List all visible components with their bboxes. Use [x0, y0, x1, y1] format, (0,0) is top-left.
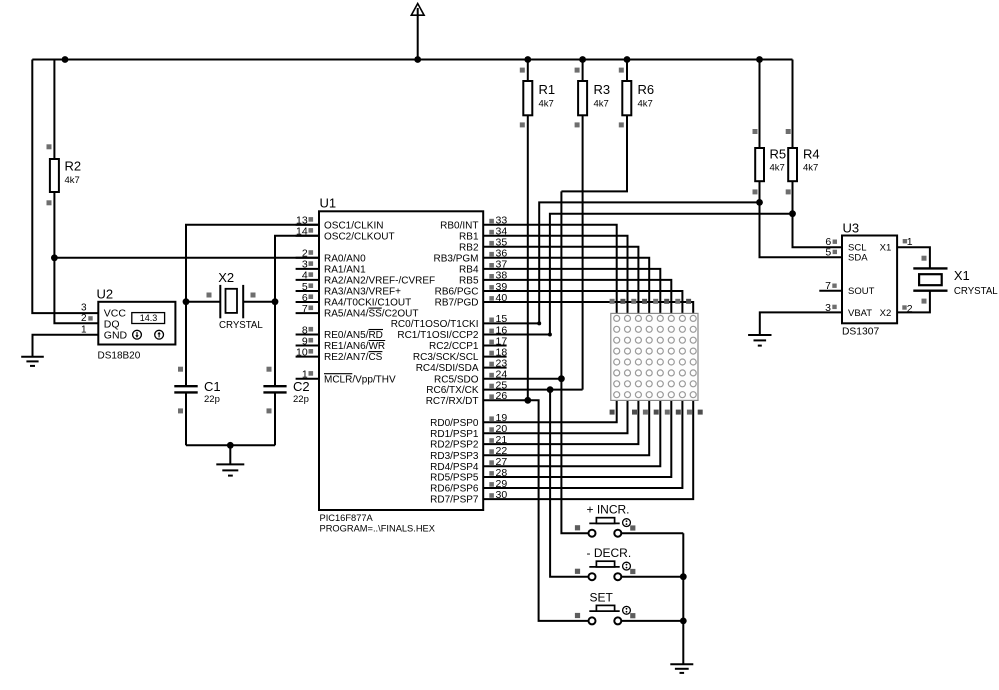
label U3 SCL	[848, 243, 866, 254]
svg-text:RB7/PGD: RB7/PGD	[435, 298, 479, 309]
svg-text:RD1/PSP1: RD1/PSP1	[430, 429, 479, 440]
svg-text:RD3/PSP3: RD3/PSP3	[430, 451, 479, 462]
wire SET to common	[621, 620, 683, 622]
label C1	[204, 379, 221, 394]
label U1 pin name RA4/T0CKI/C1OUT pin 6	[324, 298, 411, 309]
svg-text:RA4/T0CKI/C1OUT: RA4/T0CKI/C1OUT	[324, 298, 411, 309]
U2 button decrease temp	[133, 330, 142, 339]
label U2 VCC	[104, 308, 127, 320]
overbar WR pin 9	[369, 340, 386, 342]
svg-text:RA0/AN0: RA0/AN0	[324, 253, 366, 264]
pad DECR right	[630, 569, 635, 574]
label R3	[594, 82, 611, 97]
resistor R4 body	[788, 148, 797, 181]
svg-text:U2: U2	[97, 287, 114, 302]
svg-text:4k7: 4k7	[770, 163, 785, 174]
label U1 pin number 36	[496, 248, 508, 260]
wire C2 bottom	[274, 392, 276, 445]
label U1 pin number 2	[302, 248, 308, 260]
pad U1 pin 10	[309, 349, 314, 354]
node rail junction R3	[579, 56, 586, 63]
label R5	[770, 147, 787, 162]
label U1 pin name pin 35	[459, 242, 479, 253]
pad R4 pin2	[786, 189, 791, 194]
U1 pin 18 stub	[483, 356, 506, 358]
label R2	[65, 159, 82, 174]
resistor R6 body	[622, 81, 631, 115]
label U1 pin name MCLR/Vpp/THV pin 1	[324, 374, 396, 385]
label U1 pin name pin 30	[430, 495, 479, 506]
wire RB7 pin 40 to matrix column 8	[483, 302, 693, 313]
label U1 pin name RA3/AN3/VREF+ pin 5	[324, 287, 401, 298]
U1 pin 6 stub	[296, 301, 319, 303]
LED matrix dots 8x8	[614, 315, 697, 397]
wire R1 top	[527, 60, 529, 82]
overbar SS pin 7	[369, 307, 382, 309]
wire RD2 pin 21 to matrix column 3 bottom	[483, 400, 638, 444]
label U1 pin name pin 15	[391, 319, 479, 330]
pad C2 pin2	[267, 408, 272, 413]
ground symbol below U2	[21, 357, 44, 366]
node R5/SDA junction	[756, 199, 763, 206]
label R5 value 4k7	[770, 163, 785, 174]
svg-text:5: 5	[825, 246, 831, 258]
node RC7/R1/SET junction	[524, 397, 531, 404]
wire RB2 pin 35 to matrix column 3	[483, 247, 638, 314]
svg-text:RC1/T1OSI/CCP2: RC1/T1OSI/CCP2	[397, 330, 479, 341]
label U1 pin number 5	[302, 281, 308, 293]
wire U3 X2 pin to crystal	[897, 291, 930, 313]
label U1 pin name pin 34	[459, 231, 479, 242]
label U2 DQ	[104, 319, 120, 331]
label U1 pin name pin 17	[429, 341, 479, 352]
pad U1 pin 8	[309, 327, 314, 332]
pad INCR left	[575, 525, 580, 530]
label U1 pin number 14	[296, 226, 308, 238]
ground symbol below buttons	[670, 664, 693, 673]
wire RD5 pin 28 to matrix column 6 bottom	[483, 400, 671, 477]
pad DECR left	[575, 569, 580, 574]
U1 pin 2 stub	[296, 257, 319, 259]
capacitor C2 plates	[263, 386, 286, 392]
svg-text:14: 14	[296, 226, 308, 238]
wire U3.VBAT to ground	[760, 312, 842, 334]
wire RD0 pin 19 to matrix column 1 bottom	[483, 400, 617, 422]
label U1 program	[320, 524, 435, 534]
pad U1 pin 14	[309, 228, 314, 233]
label button + INCR.	[587, 503, 630, 517]
svg-text:GND: GND	[104, 330, 128, 342]
svg-text:RA2/AN2/VREF-/CVREF: RA2/AN2/VREF-/CVREF	[324, 276, 435, 287]
label U2 pin number 1	[81, 325, 87, 336]
wire C1-C2 ground bus	[186, 444, 275, 446]
svg-text:RB3/PGM: RB3/PGM	[433, 253, 478, 264]
wire R3 bottom to RC6	[582, 115, 584, 389]
label X2	[218, 270, 234, 285]
label U3 pin number 5	[825, 246, 831, 258]
svg-text:3: 3	[81, 303, 87, 314]
pad U1 pin 5	[309, 283, 314, 288]
U1 pin 14 stub	[296, 235, 319, 237]
svg-text:R3: R3	[594, 82, 611, 97]
label U1 pin name pin 40	[435, 298, 479, 309]
svg-text:RE2/AN7/CS: RE2/AN7/CS	[324, 352, 383, 363]
svg-text:RD5/PSP5: RD5/PSP5	[430, 473, 479, 484]
svg-text:RB2: RB2	[459, 242, 479, 253]
wire SCL riser and run to R4	[550, 214, 793, 335]
svg-text:RE1/AN6/WR: RE1/AN6/WR	[324, 341, 385, 352]
svg-text:PROGRAM=..\FINALS.HEX: PROGRAM=..\FINALS.HEX	[320, 524, 435, 534]
pad R1 pin1	[520, 68, 525, 73]
svg-text:X2: X2	[218, 270, 234, 285]
label U1 pin number 9	[302, 335, 308, 347]
label U1 pin name pin 16	[397, 330, 479, 341]
chip U3 box DS1307	[842, 236, 897, 324]
pad R6 pin1	[619, 68, 624, 73]
pad INCR right	[630, 525, 635, 530]
pad U1 pin 38	[489, 274, 494, 279]
pad U1 pin 3	[309, 261, 314, 266]
pad U1 pin 19	[489, 416, 494, 421]
label U2 pin number 3	[81, 303, 87, 314]
U1 pin 3 stub	[296, 268, 319, 270]
node RC1/SCL junction	[548, 333, 552, 337]
label U1 pin name RA5/AN4/SS/C2OUT pin 7	[324, 309, 418, 320]
label U1 pin number 24	[496, 369, 508, 381]
svg-text:1: 1	[302, 369, 308, 381]
label U2 temperature 14.3	[140, 313, 158, 323]
label R6	[638, 82, 655, 97]
svg-text:1: 1	[907, 236, 913, 248]
label U3	[843, 221, 860, 236]
svg-text:RD0/PSP0: RD0/PSP0	[430, 418, 479, 429]
label U1 pin name RE2/AN7/CS pin 10	[324, 352, 383, 363]
svg-text:DS18B20: DS18B20	[98, 351, 141, 362]
label C1 value 22p	[204, 394, 220, 405]
pad U1 pin 6	[309, 294, 314, 299]
label U1 pin number 33	[496, 215, 508, 227]
pad X1 pin2	[922, 299, 927, 304]
label U1 pin number 16	[496, 324, 508, 336]
label U1 pin name OSC1/CLKIN pin 13	[324, 220, 383, 231]
label U1	[320, 196, 337, 211]
svg-text:X2: X2	[880, 308, 892, 319]
wire R5 top	[759, 60, 761, 149]
resistor R3 body	[578, 81, 587, 115]
U1 pin 9 stub	[296, 345, 319, 347]
svg-text:RA1/AN1: RA1/AN1	[324, 265, 366, 276]
pad SET left	[575, 613, 580, 618]
crystal X1	[913, 268, 947, 290]
svg-text:2: 2	[81, 313, 87, 324]
pad U1 pin 28	[489, 471, 494, 476]
pad U3 pin 5	[833, 250, 837, 254]
svg-text:4k7: 4k7	[803, 163, 818, 174]
wire RC0 pin 15 to SDA net	[483, 322, 539, 324]
svg-text:R6: R6	[638, 82, 655, 97]
push button SET	[589, 605, 631, 624]
label U1 pin name OSC2/CLKOUT pin 14	[324, 231, 395, 242]
label U1 pin number 10	[296, 346, 308, 358]
label U3 SDA	[848, 253, 868, 264]
label U1 pin name RA2/AN2/VREF-/CVREF pin 4	[324, 276, 435, 287]
node rail junction R1	[524, 56, 531, 63]
push button DECR	[589, 561, 631, 580]
wire buttons common to ground	[682, 533, 684, 664]
label U1 pin name pin 37	[459, 265, 479, 276]
pad U1 pin 24	[489, 373, 494, 378]
pad U1 pin 40	[489, 296, 494, 301]
pad C1 pin2	[178, 408, 183, 413]
label U1 pin name pin 27	[430, 462, 479, 473]
svg-text:RB1: RB1	[459, 231, 479, 242]
svg-text:VBAT: VBAT	[848, 308, 872, 319]
label U3 X2	[880, 308, 892, 319]
label U1 pin number 40	[496, 292, 508, 304]
label U2 GND	[104, 330, 128, 342]
overbar CS pin 10	[369, 351, 383, 353]
wire RB5 pin 38 to matrix column 6	[483, 280, 671, 314]
pad U1 pin 1	[309, 371, 314, 376]
wire U3 X1 pin to crystal	[897, 247, 930, 268]
pad U1 pin 36	[489, 252, 494, 257]
svg-text:14.3: 14.3	[140, 313, 158, 323]
label U1 pin name pin 21	[430, 440, 479, 451]
label U1 pin number 38	[496, 270, 508, 282]
label R4 value 4k7	[803, 163, 818, 174]
U1 pin 8 stub	[296, 334, 319, 336]
label U2	[97, 287, 114, 302]
ground symbol below U3	[748, 335, 771, 346]
label U1 pin name pin 20	[430, 429, 479, 440]
label U1 pin number 29	[496, 478, 508, 490]
wire RC6 pin 25 to R3	[483, 389, 582, 391]
label C2 value 22p	[293, 394, 309, 405]
svg-text:RC3/SCK/SCL: RC3/SCK/SCL	[413, 352, 479, 363]
label U1 pin name pin 23	[416, 363, 479, 374]
resistor R5 body	[755, 148, 764, 181]
wire DECR riser	[550, 390, 588, 577]
svg-text:RB0/INT: RB0/INT	[440, 220, 478, 231]
label X1	[954, 268, 970, 283]
svg-text:R2: R2	[65, 159, 82, 174]
pad U1 pin 27	[489, 460, 494, 465]
label U1 pin name pin 39	[435, 287, 479, 298]
chip U1 box PIC16F877A	[319, 211, 483, 510]
label C2	[293, 379, 310, 394]
wire RB1 pin 34 to matrix column 2	[483, 236, 627, 314]
label button - DECR.	[587, 546, 632, 560]
label U1 pin number 26	[496, 390, 508, 402]
node VCC junction at power arrow	[414, 56, 421, 63]
wire left VCC rail down to U2.VCC	[32, 60, 98, 314]
wire RB6 pin 39 to matrix column 7	[483, 291, 682, 313]
svg-text:C2: C2	[293, 379, 310, 394]
resistor R1 body	[523, 81, 532, 115]
label U3 pin number 1	[907, 236, 913, 248]
pad U1 pin 22	[489, 449, 494, 454]
label U1 pin name RE1/AN6/WR pin 9	[324, 341, 385, 352]
svg-text:DS1307: DS1307	[842, 327, 879, 338]
label U1 pin number 28	[496, 467, 508, 479]
wire top VCC rail	[32, 59, 792, 61]
label R4	[803, 147, 820, 162]
pads matrix top pins	[610, 299, 692, 304]
pad X1 pin1	[922, 256, 927, 261]
U2 temperature display box	[132, 313, 165, 324]
label U1 pin number 1	[302, 369, 308, 381]
wire RB0 pin 33 to matrix column 1	[483, 225, 617, 314]
wire RB3 pin 36 to matrix column 4	[483, 258, 649, 314]
overbar MCLR pin 1	[324, 373, 352, 375]
pad U1 pin 2	[309, 250, 314, 255]
wire R4 bottom to U3.SCL	[793, 181, 843, 247]
label U1 pin number 15	[496, 313, 508, 325]
label DS1307	[842, 327, 879, 338]
wire RD7 pin 30 to matrix column 8 bottom	[483, 400, 693, 499]
U1 pin 7 stub	[296, 312, 319, 314]
label U1 pin number 18	[496, 346, 508, 358]
svg-text:RC0/T1OSO/T1CKI: RC0/T1OSO/T1CKI	[391, 319, 479, 330]
pad U1 pin 25	[489, 384, 494, 389]
label R1	[539, 82, 556, 97]
label U3 pin number 2	[907, 303, 913, 315]
label U1 pin name pin 19	[430, 418, 479, 429]
pad U1 pin 21	[489, 438, 494, 443]
svg-text:U1: U1	[320, 196, 337, 211]
label R6 value 4k7	[638, 99, 653, 110]
svg-text:RC7/RX/DT: RC7/RX/DT	[426, 396, 479, 407]
label U1 pin number 6	[302, 292, 308, 304]
pad C1 pin1	[178, 367, 183, 372]
label U1 pin name RA1/AN1 pin 3	[324, 265, 366, 276]
pad U1 pin 33	[489, 219, 494, 224]
label U1 pin name pin 36	[433, 253, 478, 264]
label U1 pin number 21	[496, 434, 508, 446]
pad U1 pin 23	[489, 362, 494, 367]
svg-text:X1: X1	[954, 268, 970, 283]
svg-text:RC6/TX/CK: RC6/TX/CK	[426, 385, 479, 396]
pad R3 pin1	[575, 68, 580, 73]
wire OSC1 to crystal left	[186, 225, 319, 302]
label U3 pin number 6	[825, 236, 831, 248]
pad C2 pin1	[267, 367, 272, 372]
node RC0/SDA junction	[537, 321, 541, 325]
svg-text:22p: 22p	[293, 394, 309, 405]
label U1 pin number 25	[496, 379, 508, 391]
wire C1 bottom	[185, 392, 187, 445]
svg-text:- DECR.: - DECR.	[587, 546, 632, 560]
label U1 pin name pin 22	[430, 451, 479, 462]
wire U2.GND to ground	[33, 335, 99, 357]
U1 pin 5 stub	[296, 290, 319, 292]
label U1 pin name RA0/AN0 pin 2	[324, 253, 366, 264]
node common SET junction	[680, 618, 687, 625]
pad U3 pin 3	[832, 305, 836, 309]
label U3 VBAT	[848, 308, 872, 319]
node rail junction R6	[624, 56, 631, 63]
wire RC7 pin 26 to R1	[483, 399, 528, 401]
label U1 pin number 13	[296, 215, 308, 227]
wire R2 bottom to U2.DQ	[54, 192, 98, 323]
label U1 pin number 4	[302, 270, 308, 282]
wire R6 top	[626, 60, 628, 82]
pad U1 pin 20	[489, 427, 494, 432]
label U3 SOUT	[848, 286, 875, 297]
LED matrix body	[611, 313, 698, 400]
ground symbol below crystal caps	[216, 464, 244, 475]
node ground bus junction	[227, 442, 234, 449]
svg-text:2: 2	[907, 303, 913, 315]
svg-text:R5: R5	[770, 147, 787, 162]
wire R2 top to rail	[53, 60, 55, 160]
svg-text:U3: U3	[843, 221, 860, 236]
label U1 pin number 7	[302, 303, 308, 315]
label U1 pin name pin 26	[426, 396, 479, 407]
label U1 pin number 34	[496, 226, 508, 238]
wire RD3 pin 22 to matrix column 4 bottom	[483, 400, 649, 455]
svg-text:PIC16F877A: PIC16F877A	[320, 513, 374, 523]
label U1 pin number 35	[496, 237, 508, 249]
pad U1 pin 13	[309, 217, 314, 222]
svg-text:1: 1	[81, 325, 87, 336]
pad U1 pin 29	[489, 482, 494, 487]
pad U1 pin 26	[489, 394, 494, 399]
pad U3 pin 7	[832, 284, 836, 288]
wire INCR riser	[561, 191, 588, 533]
svg-text:CRYSTAL: CRYSTAL	[219, 320, 263, 331]
wire SET net jog	[528, 400, 589, 621]
pad R5 pin1	[753, 129, 758, 134]
svg-text:RD6/PSP6: RD6/PSP6	[430, 484, 479, 495]
wire C1 top	[185, 302, 187, 387]
resistor R2 body	[50, 159, 59, 192]
U2 button increase temp	[155, 330, 164, 339]
pads matrix bottom pins	[610, 410, 703, 415]
label U1 pin number 22	[496, 445, 508, 457]
svg-text:22p: 22p	[204, 394, 220, 405]
node rail junction R5	[756, 56, 763, 63]
pad U1 pin 4	[309, 272, 314, 277]
label U1 pin number 39	[496, 281, 508, 293]
svg-text:OSC1/CLKIN: OSC1/CLKIN	[324, 220, 383, 231]
label button SET	[590, 590, 614, 604]
node R4/SCL junction	[789, 210, 796, 217]
svg-text:3: 3	[825, 302, 831, 314]
U1 pin 23 stub	[483, 367, 506, 369]
pad U1 pin 17	[489, 340, 494, 345]
label U1 pin name pin 18	[413, 352, 479, 363]
wire R3 top	[582, 60, 584, 82]
svg-text:SET: SET	[590, 590, 614, 604]
wire ground stem	[229, 445, 231, 464]
svg-text:7: 7	[825, 280, 831, 292]
pad U1 pin 16	[489, 329, 494, 334]
node crystal left junction	[183, 298, 190, 305]
label U1 pin number 37	[496, 259, 508, 271]
svg-text:RD4/PSP4: RD4/PSP4	[430, 462, 479, 473]
label U1 pin name pin 38	[459, 276, 479, 287]
wire SDA riser and run to R5	[539, 202, 759, 323]
svg-text:RB6/PGC: RB6/PGC	[435, 287, 479, 298]
wire INCR to common	[621, 532, 683, 534]
svg-text:SOUT: SOUT	[848, 286, 875, 297]
svg-text:OSC2/CLKOUT: OSC2/CLKOUT	[324, 231, 395, 242]
overbar RD pin 8	[369, 329, 384, 331]
pad U1 pin 37	[489, 263, 494, 268]
label U1 pin number 3	[302, 259, 308, 271]
pad R5 pin2	[753, 189, 758, 194]
